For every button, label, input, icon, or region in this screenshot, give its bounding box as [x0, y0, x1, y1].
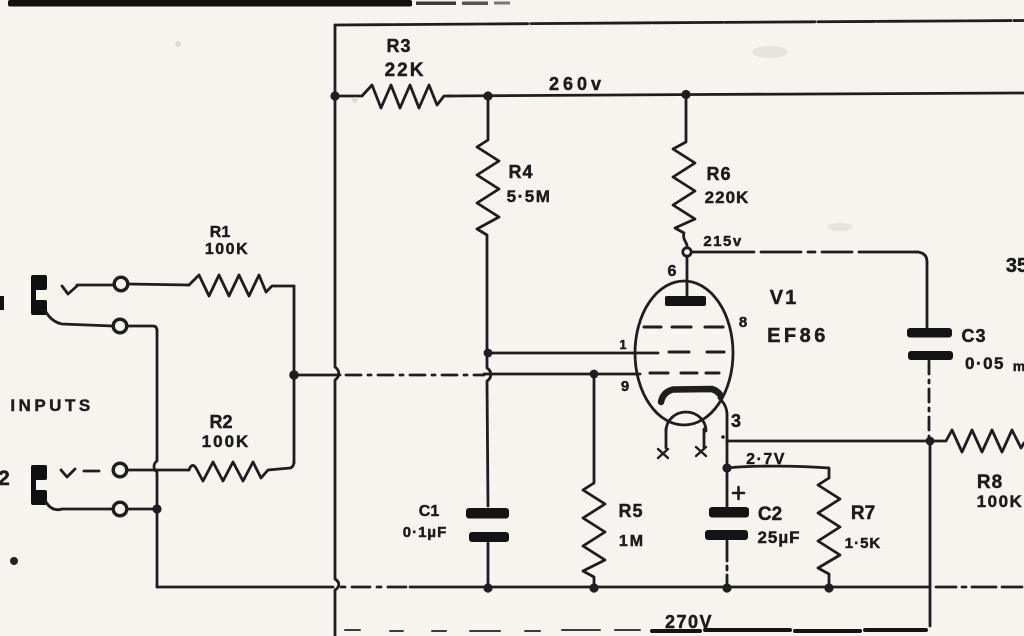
resistor R7	[818, 478, 840, 587]
jack 1 sleeve	[46, 312, 113, 326]
wire jack1 tip to R1	[128, 284, 189, 285]
grid g1 dashes	[650, 372, 719, 375]
grid g3 dashes	[644, 326, 723, 329]
capacitor C3	[907, 328, 952, 338]
anode plate	[665, 296, 706, 306]
svg-text:100K: 100K	[205, 241, 249, 258]
wire cathode to R7	[727, 466, 829, 478]
scan edge bar top	[8, 0, 510, 7]
svg-text:270V: 270V	[665, 612, 713, 632]
svg-text:8: 8	[739, 314, 747, 331]
svg-text:INPUTS: INPUTS	[10, 396, 93, 415]
wire pin 3 / anode of cathode circuit	[719, 398, 727, 468]
svg-text:C1: C1	[419, 503, 440, 520]
svg-text:2·7V: 2·7V	[746, 451, 786, 468]
capacitor C1	[466, 508, 509, 519]
jack 2 sleeve	[46, 502, 113, 510]
svg-text:V1: V1	[770, 287, 798, 309]
wire 215v dash-dot to C3	[692, 251, 918, 254]
svg-text:EF86: EF86	[767, 325, 829, 347]
svg-text:C2: C2	[758, 504, 782, 525]
wire C3/R8 node down to bottom rail	[929, 441, 932, 626]
junction at left bus / R3	[330, 91, 339, 100]
junction 260V at R6	[681, 90, 690, 99]
heater x marks	[658, 449, 668, 458]
svg-text:100K: 100K	[202, 432, 251, 451]
svg-text:5·5M: 5·5M	[507, 187, 552, 206]
bottom ground rail	[157, 586, 333, 589]
grid g2 dashes	[669, 351, 724, 354]
jack 1 tip contact	[77, 284, 113, 287]
svg-text:9: 9	[621, 378, 629, 395]
svg-text:R8: R8	[977, 472, 1003, 493]
input jack 2	[31, 465, 47, 505]
svg-text:22K: 22K	[385, 60, 426, 81]
wire R1/R2 junction vertical	[293, 286, 296, 463]
input jack 1	[31, 275, 47, 315]
resistor R5	[583, 374, 605, 587]
wire R4 to pin 1	[488, 352, 658, 355]
svg-text:R3: R3	[386, 36, 411, 56]
wire pin3 to R8 node	[727, 440, 930, 443]
svg-text:1: 1	[619, 337, 626, 352]
svg-text:1M: 1M	[619, 533, 645, 550]
wire R4 down to C1 (hop over grid line)	[487, 353, 491, 506]
resistor R8	[930, 430, 1024, 452]
resistor R2	[189, 461, 294, 481]
resistor R4	[477, 96, 499, 352]
svg-text:0·05: 0·05	[965, 354, 1005, 373]
resistor R3	[335, 85, 452, 108]
svg-text:R7: R7	[851, 503, 875, 524]
jack 2 tip hook	[61, 469, 75, 477]
svg-text:C3: C3	[961, 326, 986, 346]
svg-text:6: 6	[668, 263, 677, 280]
heater legs	[666, 429, 704, 448]
wire top rail	[335, 21, 1024, 26]
svg-text:m: m	[1013, 358, 1024, 374]
resistor R1	[189, 275, 294, 296]
scan edge dashes bottom	[345, 630, 640, 631]
svg-text:215v: 215v	[703, 233, 742, 250]
heater arch	[666, 412, 706, 431]
jack 1 tip hook	[62, 286, 77, 294]
wire input ground bus	[154, 330, 157, 587]
tube V1 envelope	[635, 281, 733, 425]
svg-text:R1: R1	[210, 224, 231, 241]
node cathode junction	[722, 463, 731, 472]
cathode	[661, 389, 721, 402]
wire jack2 tip to R2	[127, 469, 189, 472]
resistor R6	[673, 95, 695, 248]
wire left bus vertical	[335, 25, 339, 636]
svg-text:25µF: 25µF	[757, 528, 800, 547]
svg-text:1·5K: 1·5K	[845, 535, 882, 552]
svg-text:260v: 260v	[549, 74, 605, 94]
node 260V rail	[448, 93, 1024, 96]
svg-text:R2: R2	[209, 412, 232, 432]
capacitor C2	[726, 468, 729, 507]
svg-text:0·1µF: 0·1µF	[403, 524, 448, 541]
label input 1 (clipped)	[0, 296, 4, 310]
svg-text:220K: 220K	[705, 188, 750, 207]
svg-text:2: 2	[0, 467, 10, 490]
svg-text:R5: R5	[618, 501, 643, 521]
scan smudges	[10, 41, 853, 565]
svg-text:100K: 100K	[977, 492, 1024, 511]
junction 260V at R4	[483, 91, 492, 100]
wire 215v to anode pin 6	[686, 256, 689, 297]
svg-text:35: 35	[1006, 255, 1024, 277]
svg-text:3: 3	[731, 411, 741, 431]
svg-text:R4: R4	[508, 162, 533, 182]
svg-text:R6: R6	[706, 164, 731, 184]
wire grid line from inputs to pin 9	[289, 370, 299, 380]
node 215v	[683, 248, 691, 256]
